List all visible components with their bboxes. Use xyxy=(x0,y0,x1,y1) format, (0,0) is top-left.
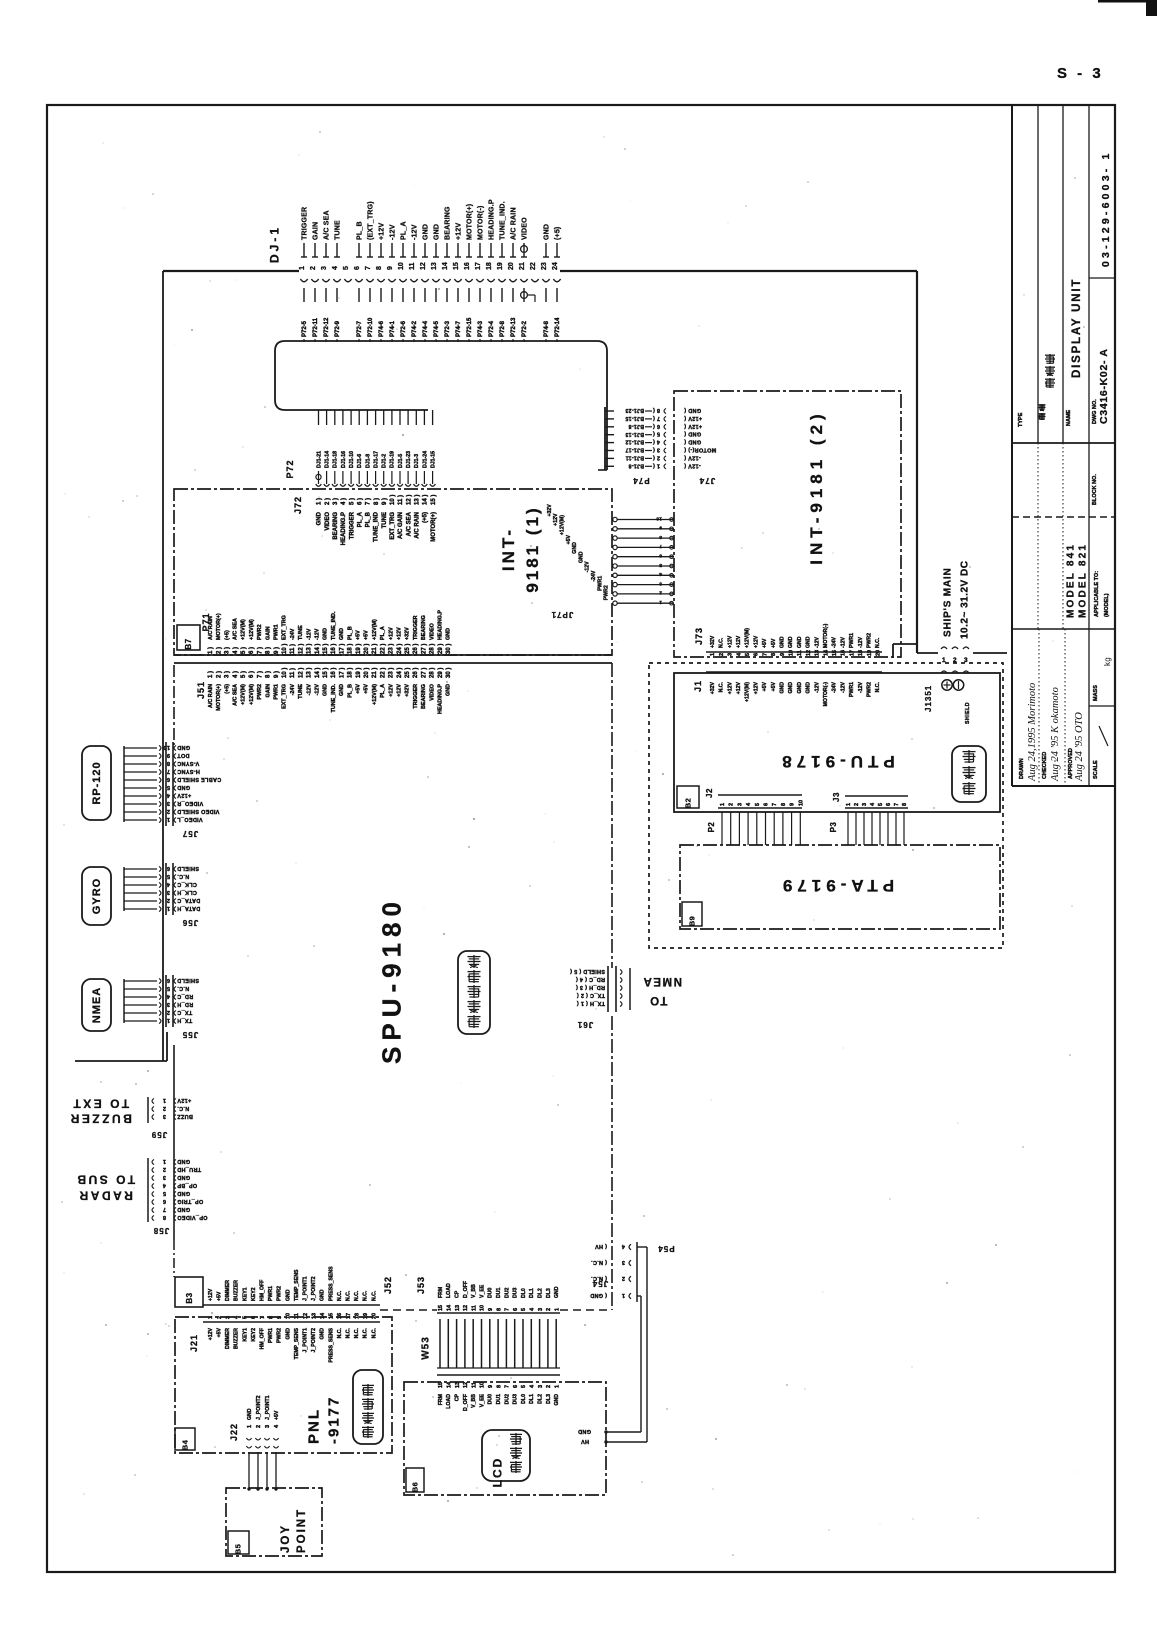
svg-text:VIDEO_R: VIDEO_R xyxy=(177,800,203,806)
svg-text:A/C RAIN: A/C RAIN xyxy=(511,207,518,240)
svg-text:J_POINT1: J_POINT1 xyxy=(265,1395,271,1420)
svg-text:SHIELD: SHIELD xyxy=(177,977,199,983)
svg-text:GND: GND xyxy=(806,636,812,648)
svg-text:A/C SEA: A/C SEA xyxy=(233,618,239,640)
svg-text:3: 3 xyxy=(538,1385,544,1388)
svg-text:3: 3 xyxy=(737,803,743,806)
svg-text:W53: W53 xyxy=(421,1336,432,1360)
svg-text:3 ): 3 ) xyxy=(333,498,339,505)
svg-text:12: 12 xyxy=(420,262,427,270)
svg-text:N.C.: N.C. xyxy=(719,637,725,648)
svg-text:BJ1-8: BJ1-8 xyxy=(628,423,644,429)
svg-text:7 (: 7 ( xyxy=(653,415,660,421)
svg-text:6 (: 6 ( xyxy=(653,423,660,429)
svg-text:RD_H ( 3 (: RD_H ( 3 ( xyxy=(576,984,605,990)
svg-text:6: 6 xyxy=(167,865,170,871)
svg-text:2: 2 xyxy=(167,1009,170,1015)
svg-text:(+5): (+5) xyxy=(423,512,429,523)
svg-text:+32V: +32V xyxy=(547,504,553,517)
svg-text:KEY2: KEY2 xyxy=(251,1328,257,1342)
svg-text:TEMP_SENS: TEMP_SENS xyxy=(294,1269,300,1301)
svg-text:6: 6 xyxy=(764,803,770,806)
svg-text:N.C.: N.C. xyxy=(346,1290,352,1301)
svg-text:J53: J53 xyxy=(416,1276,426,1294)
svg-text:DIMMER: DIMMER xyxy=(225,1280,231,1301)
svg-text:KEY2: KEY2 xyxy=(251,1287,257,1301)
svg-text:5: 5 xyxy=(745,653,751,656)
svg-text:DJ1-16: DJ1-16 xyxy=(341,451,347,468)
svg-text:N.C.: N.C. xyxy=(875,637,881,648)
svg-text:DL2: DL2 xyxy=(538,1394,544,1404)
svg-text:25 ): 25 ) xyxy=(405,668,411,678)
svg-text:2: 2 xyxy=(167,897,170,903)
svg-text:GND: GND xyxy=(572,542,578,554)
svg-text:PTU-9178: PTU-9178 xyxy=(777,752,894,771)
svg-text:P72-8: P72-8 xyxy=(500,320,506,337)
svg-text:21 ): 21 ) xyxy=(372,644,378,654)
svg-text:10 ): 10 ) xyxy=(390,495,396,505)
svg-text:8 (: 8 ( xyxy=(653,407,660,413)
svg-text:A/C RAIN: A/C RAIN xyxy=(208,616,214,640)
svg-text:PWR2: PWR2 xyxy=(604,585,610,600)
svg-text:N.C.: N.C. xyxy=(346,1327,352,1338)
svg-text:TX_H: TX_H xyxy=(177,1017,192,1023)
svg-text:CP: CP xyxy=(455,1290,461,1298)
svg-text:MOTOR(+): MOTOR(+) xyxy=(431,512,437,542)
svg-text:VIDEO SHIELD: VIDEO SHIELD xyxy=(177,808,219,814)
svg-text:+5V: +5V xyxy=(274,1410,280,1420)
svg-text:9: 9 xyxy=(167,752,170,758)
svg-text:N.C.: N.C. xyxy=(177,985,189,991)
svg-text:1: 1 xyxy=(167,1017,170,1023)
svg-text:SHIELD ( 5 (: SHIELD ( 5 ( xyxy=(570,968,605,974)
svg-text:+12V(M): +12V(M) xyxy=(249,619,255,640)
svg-text:GND: GND xyxy=(554,1394,560,1406)
svg-text:VIDEO: VIDEO xyxy=(429,684,435,701)
svg-text:1: 1 xyxy=(720,803,726,806)
svg-text:-12V: -12V xyxy=(306,628,312,640)
svg-text:J72: J72 xyxy=(293,496,303,514)
svg-text:P72-13: P72-13 xyxy=(511,317,517,337)
svg-text:12: 12 xyxy=(463,1305,469,1311)
svg-text:+5V: +5V xyxy=(356,684,362,694)
svg-text:+5V: +5V xyxy=(762,681,768,691)
svg-text:+12V: +12V xyxy=(727,681,733,694)
svg-text:J56: J56 xyxy=(182,918,198,927)
svg-text:11: 11 xyxy=(471,1382,477,1388)
svg-text:DJ1-18: DJ1-18 xyxy=(333,451,339,468)
svg-text:P72-4: P72-4 xyxy=(489,320,495,337)
svg-text:6: 6 xyxy=(354,266,361,270)
svg-text:DISPLAY UNIT: DISPLAY UNIT xyxy=(1071,278,1083,378)
svg-text:( N.C.: ( N.C. xyxy=(591,1259,607,1265)
svg-text:1: 1 xyxy=(299,266,306,270)
svg-text:2: 2 xyxy=(167,808,170,814)
svg-text:(MODEL): (MODEL) xyxy=(1104,593,1110,617)
svg-text:GND (: GND ( xyxy=(684,407,701,413)
svg-text:13: 13 xyxy=(815,650,821,656)
svg-text:1 (: 1 ( xyxy=(653,462,660,468)
svg-text:1: 1 xyxy=(163,1097,166,1103)
svg-text:DJ1-2: DJ1-2 xyxy=(382,454,388,468)
svg-text:CP: CP xyxy=(455,1393,461,1401)
svg-text:24 ): 24 ) xyxy=(397,644,403,654)
svg-text:19: 19 xyxy=(363,1313,369,1319)
svg-text:5 (: 5 ( xyxy=(653,431,660,437)
svg-text:+12V: +12V xyxy=(397,627,403,640)
svg-text:P74-2: P74-2 xyxy=(412,320,418,337)
svg-text:NAME: NAME xyxy=(1066,409,1072,426)
svg-text:DJ1-17: DJ1-17 xyxy=(373,451,379,468)
svg-text:+32V: +32V xyxy=(405,684,411,697)
svg-text:1: 1 xyxy=(710,653,716,656)
svg-text:RD_H: RD_H xyxy=(177,1001,193,1007)
svg-text:1 ): 1 ) xyxy=(208,671,214,678)
svg-text:+12V(M): +12V(M) xyxy=(241,619,247,640)
svg-text:14 ): 14 ) xyxy=(315,668,321,678)
svg-text:1: 1 xyxy=(163,1158,166,1164)
svg-text:SHIELD: SHIELD xyxy=(177,865,199,871)
svg-text:3: 3 xyxy=(622,1259,625,1265)
svg-text:7: 7 xyxy=(505,1308,511,1311)
svg-text:N.C.: N.C. xyxy=(363,1290,369,1301)
svg-text:8: 8 xyxy=(496,1385,502,1388)
svg-text:GND: GND xyxy=(177,1190,190,1196)
svg-text:RP-120: RP-120 xyxy=(91,761,103,804)
svg-text:29 ): 29 ) xyxy=(438,644,444,654)
svg-text:+5V: +5V xyxy=(356,630,362,640)
svg-text:15: 15 xyxy=(438,1305,444,1311)
svg-text:10.2~ 31.2V DC: 10.2~ 31.2V DC xyxy=(960,561,971,639)
svg-text:DU3: DU3 xyxy=(513,1288,519,1298)
svg-text:24 ): 24 ) xyxy=(397,668,403,678)
svg-text:9: 9 xyxy=(488,1308,494,1311)
svg-text:8: 8 xyxy=(659,534,662,540)
svg-text:1: 1 xyxy=(554,1385,560,1388)
svg-text:PWR2: PWR2 xyxy=(867,682,873,697)
svg-text:N.C.: N.C. xyxy=(337,1327,343,1338)
svg-text:A/C SEA: A/C SEA xyxy=(406,511,412,536)
svg-text:6: 6 xyxy=(513,1385,519,1388)
svg-text:3: 3 xyxy=(163,1174,166,1180)
svg-text:-12V: -12V xyxy=(315,684,321,696)
svg-text:(+5): (+5) xyxy=(555,227,562,240)
svg-text:RD_C: RD_C xyxy=(177,993,193,999)
svg-text:-12V: -12V xyxy=(412,224,419,240)
svg-text:DU2: DU2 xyxy=(504,1394,510,1404)
svg-text:N.C.: N.C. xyxy=(337,1290,343,1301)
svg-text:17: 17 xyxy=(475,262,482,270)
svg-text:10: 10 xyxy=(656,515,662,521)
svg-text:S - 3: S - 3 xyxy=(1057,65,1104,82)
svg-text:2: 2 xyxy=(546,1308,552,1311)
svg-text:POINT: POINT xyxy=(296,1508,308,1553)
svg-text:9: 9 xyxy=(790,803,796,806)
svg-text:+12V(M): +12V(M) xyxy=(249,684,255,705)
svg-text:SCALE: SCALE xyxy=(1093,760,1099,779)
svg-text:P72-3: P72-3 xyxy=(445,320,451,337)
svg-text:RADAR: RADAR xyxy=(77,1189,133,1203)
svg-text:P72-10: P72-10 xyxy=(368,317,374,337)
svg-text:J57: J57 xyxy=(182,829,198,838)
svg-text:TRIGGER: TRIGGER xyxy=(413,615,419,640)
svg-text:P72: P72 xyxy=(285,459,295,478)
svg-text:BJ1-15: BJ1-15 xyxy=(625,415,644,421)
svg-text:6: 6 xyxy=(754,653,760,656)
svg-text:30 ): 30 ) xyxy=(446,668,452,678)
svg-text:+12V(M): +12V(M) xyxy=(372,684,378,705)
svg-text:28 ): 28 ) xyxy=(430,668,436,678)
svg-text:P74-5: P74-5 xyxy=(434,320,440,337)
svg-text:P74: P74 xyxy=(632,476,649,485)
svg-text:22 ): 22 ) xyxy=(380,668,386,678)
svg-text:+32V: +32V xyxy=(710,681,716,694)
svg-text:DU0: DU0 xyxy=(488,1394,494,1404)
svg-text:14 ): 14 ) xyxy=(423,495,429,505)
svg-text:J3: J3 xyxy=(832,792,841,802)
svg-text:20: 20 xyxy=(508,262,515,270)
svg-text:7 ): 7 ) xyxy=(257,647,263,654)
svg-text:16: 16 xyxy=(337,1313,343,1319)
svg-text:DU2: DU2 xyxy=(504,1288,510,1298)
svg-text:OP_TRIG: OP_TRIG xyxy=(177,1198,203,1204)
svg-text:GND: GND xyxy=(177,1206,190,1212)
svg-text:P72-12: P72-12 xyxy=(324,317,330,337)
svg-text:GND: GND xyxy=(788,636,794,648)
svg-text:J59: J59 xyxy=(151,1130,167,1139)
svg-text:+12V(M): +12V(M) xyxy=(745,682,751,702)
svg-text:GND: GND xyxy=(578,1428,591,1434)
svg-text:9 ): 9 ) xyxy=(274,671,280,678)
svg-text:1 ): 1 ) xyxy=(208,647,214,654)
svg-text:BJ1-23: BJ1-23 xyxy=(625,407,644,413)
svg-text:-24V: -24V xyxy=(832,681,838,692)
svg-text:DL3: DL3 xyxy=(546,1394,552,1404)
svg-text:4: 4 xyxy=(332,266,339,270)
svg-text:PWR1: PWR1 xyxy=(849,682,855,697)
svg-text:PWR2: PWR2 xyxy=(277,1328,283,1343)
svg-text:PRESS_SENS: PRESS_SENS xyxy=(328,1266,334,1301)
svg-text:BEARING: BEARING xyxy=(445,206,452,240)
svg-text:DOT: DOT xyxy=(177,752,190,758)
svg-text:4 (: 4 ( xyxy=(653,439,660,445)
svg-text:10: 10 xyxy=(798,800,804,806)
svg-text:14: 14 xyxy=(442,262,449,270)
svg-text:PL_A: PL_A xyxy=(380,626,386,640)
svg-text:TEMP_SENS: TEMP_SENS xyxy=(294,1327,300,1359)
svg-text:DJ1-14: DJ1-14 xyxy=(325,451,331,468)
svg-text:1: 1 xyxy=(622,1292,625,1298)
svg-text:-24V: -24V xyxy=(591,570,597,581)
svg-text:KEY1: KEY1 xyxy=(242,1328,248,1342)
svg-text:23 ): 23 ) xyxy=(389,644,395,654)
svg-text:TUNE_IND: TUNE_IND xyxy=(374,511,380,542)
svg-text:11 ): 11 ) xyxy=(290,668,296,678)
svg-text:+12V: +12V xyxy=(736,681,742,694)
svg-text:14: 14 xyxy=(823,649,829,656)
svg-text:CLK_C: CLK_C xyxy=(177,881,197,887)
svg-text:HEADING.P: HEADING.P xyxy=(341,512,347,545)
svg-text:BLOCK NO.: BLOCK NO. xyxy=(1092,474,1098,505)
svg-text:P72-9: P72-9 xyxy=(335,320,341,337)
svg-text:P72-14: P72-14 xyxy=(555,317,561,337)
svg-text:5 ): 5 ) xyxy=(241,647,247,654)
svg-text:18: 18 xyxy=(858,650,864,656)
svg-text:25 ): 25 ) xyxy=(405,644,411,654)
svg-text:GND: GND xyxy=(177,784,190,790)
svg-text:+12V(M): +12V(M) xyxy=(560,515,566,535)
svg-text:24: 24 xyxy=(552,262,559,270)
svg-text:J1: J1 xyxy=(693,680,703,692)
svg-text:3 (: 3 ( xyxy=(653,447,660,453)
svg-text:4 ): 4 ) xyxy=(341,498,347,505)
svg-text:P74-4: P74-4 xyxy=(423,320,429,337)
svg-text:MOTOR(+): MOTOR(+) xyxy=(216,684,222,711)
svg-text:J51: J51 xyxy=(196,681,206,699)
svg-text:7 ): 7 ) xyxy=(366,498,372,505)
svg-text:J74: J74 xyxy=(699,476,715,485)
svg-text:1: 1 xyxy=(167,816,170,822)
svg-text:3: 3 xyxy=(728,653,734,656)
svg-text:2: 2 xyxy=(310,266,317,270)
svg-text:12 ): 12 ) xyxy=(298,644,304,654)
svg-text:B7: B7 xyxy=(184,638,193,649)
svg-text:-24V: -24V xyxy=(832,637,838,648)
svg-text:H-SYNC: H-SYNC xyxy=(177,768,200,774)
svg-text:GND: GND xyxy=(780,682,786,694)
svg-text:23 ): 23 ) xyxy=(389,668,395,678)
svg-text:6 ): 6 ) xyxy=(249,671,255,678)
svg-text:BJ1-12: BJ1-12 xyxy=(625,439,644,445)
svg-text:BUZZ: BUZZ xyxy=(177,1113,193,1119)
svg-text:NMEA: NMEA xyxy=(91,987,103,1023)
svg-text:SHIELD: SHIELD xyxy=(965,702,971,724)
svg-text:15 ): 15 ) xyxy=(431,495,437,505)
svg-text:N.C.: N.C. xyxy=(719,681,725,692)
svg-text:+5V: +5V xyxy=(217,1327,223,1337)
svg-text:PWR1: PWR1 xyxy=(268,1286,274,1301)
svg-text:PL_B: PL_B xyxy=(357,221,364,240)
svg-text:8: 8 xyxy=(376,266,383,270)
svg-text:JOY: JOY xyxy=(280,1524,292,1553)
svg-text:19: 19 xyxy=(867,650,873,656)
svg-text:GND: GND xyxy=(177,1174,190,1180)
svg-text:9: 9 xyxy=(780,653,786,656)
svg-text:+5V: +5V xyxy=(771,681,777,691)
svg-text:+32V: +32V xyxy=(405,627,411,640)
svg-text:13 ): 13 ) xyxy=(307,668,313,678)
svg-text:2: 2 xyxy=(659,590,662,596)
svg-text:4 ): 4 ) xyxy=(233,671,239,678)
svg-text:20: 20 xyxy=(876,650,882,656)
svg-text:SPU-9180: SPU-9180 xyxy=(376,896,406,1064)
svg-text:GND: GND xyxy=(446,684,452,696)
svg-text:13 ): 13 ) xyxy=(307,644,313,654)
svg-text:+12V: +12V xyxy=(753,681,759,694)
svg-text:3 ): 3 ) xyxy=(225,671,231,678)
svg-text:12: 12 xyxy=(806,650,812,656)
svg-text:LOAD: LOAD xyxy=(446,1394,452,1409)
svg-text:B6: B6 xyxy=(411,1482,420,1493)
svg-text:N.C.: N.C. xyxy=(875,681,881,692)
svg-text:CLK_H: CLK_H xyxy=(177,889,197,895)
svg-text:GND: GND xyxy=(806,682,812,694)
svg-text:TUNE_IND.: TUNE_IND. xyxy=(500,201,507,240)
svg-text:+12V: +12V xyxy=(388,684,394,697)
svg-text:9: 9 xyxy=(387,266,394,270)
svg-text:( GND: ( GND xyxy=(590,1292,607,1298)
svg-text:7: 7 xyxy=(167,768,170,774)
svg-text:P2: P2 xyxy=(707,822,716,833)
svg-text:GAIN: GAIN xyxy=(265,684,271,698)
svg-text:J_POINT2: J_POINT2 xyxy=(311,1276,317,1301)
svg-text:SHIP'S MAIN: SHIP'S MAIN xyxy=(943,567,954,637)
svg-text:20 ): 20 ) xyxy=(364,644,370,654)
svg-text:7: 7 xyxy=(659,543,662,549)
svg-text:18: 18 xyxy=(486,262,493,270)
svg-text:LOAD: LOAD xyxy=(446,1283,452,1298)
svg-text:PWR1: PWR1 xyxy=(274,684,280,700)
svg-text:16: 16 xyxy=(841,650,847,656)
svg-text:PWR2: PWR2 xyxy=(277,1286,283,1301)
svg-text:HM_OFF: HM_OFF xyxy=(260,1328,266,1349)
svg-text:5: 5 xyxy=(521,1385,527,1388)
svg-text:15 ): 15 ) xyxy=(323,668,329,678)
svg-text:EXT_TRG: EXT_TRG xyxy=(282,615,288,640)
svg-text:N.C.: N.C. xyxy=(371,1327,377,1338)
svg-text:TUNE_IND.: TUNE_IND. xyxy=(331,684,337,713)
svg-text:DU1: DU1 xyxy=(496,1288,502,1298)
svg-text:5: 5 xyxy=(878,803,884,806)
svg-text:HEADING.P: HEADING.P xyxy=(489,199,496,240)
svg-text:PL_A: PL_A xyxy=(380,684,386,698)
svg-text:BUZZER: BUZZER xyxy=(234,1328,240,1349)
svg-text:INT-: INT- xyxy=(499,527,518,571)
svg-text:N.C.: N.C. xyxy=(177,873,189,879)
svg-text:14: 14 xyxy=(447,1304,453,1311)
svg-text:2 ): 2 ) xyxy=(325,498,331,505)
svg-text:PRESS_SENS: PRESS_SENS xyxy=(328,1327,334,1362)
svg-text:DL1: DL1 xyxy=(529,1288,535,1298)
svg-text:7: 7 xyxy=(365,266,372,270)
svg-text:19 ): 19 ) xyxy=(356,668,362,678)
svg-text:PWR2: PWR2 xyxy=(867,633,873,648)
svg-text:J55: J55 xyxy=(182,1030,198,1039)
svg-text:GAIN: GAIN xyxy=(313,222,320,240)
svg-text:DJ1-19: DJ1-19 xyxy=(390,451,396,468)
svg-text:TRIGGER: TRIGGER xyxy=(413,684,419,709)
svg-text:2 (: 2 ( xyxy=(653,454,660,460)
svg-text:+5V: +5V xyxy=(364,684,370,694)
svg-text:FRM: FRM xyxy=(438,1394,444,1405)
svg-text:11 ): 11 ) xyxy=(398,495,404,505)
svg-text:DJ1-10: DJ1-10 xyxy=(349,451,355,468)
svg-text:GND: GND xyxy=(323,628,329,640)
svg-text:+5V: +5V xyxy=(566,534,572,544)
svg-text:5: 5 xyxy=(659,562,662,568)
svg-text:12: 12 xyxy=(303,1313,309,1319)
svg-text:MOTOR(-): MOTOR(-) xyxy=(823,623,829,648)
svg-text:DL3: DL3 xyxy=(546,1288,552,1298)
svg-text:-12V: -12V xyxy=(585,561,591,572)
svg-text:A/C SEA: A/C SEA xyxy=(233,684,239,706)
svg-text:MODEL 841: MODEL 841 xyxy=(1066,543,1077,618)
svg-text:18 ): 18 ) xyxy=(348,668,354,678)
svg-text:PTA-9179: PTA-9179 xyxy=(778,876,894,895)
svg-text:DL0: DL0 xyxy=(521,1288,527,1298)
svg-text:GND: GND xyxy=(323,684,329,696)
svg-text:2: 2 xyxy=(719,653,725,656)
